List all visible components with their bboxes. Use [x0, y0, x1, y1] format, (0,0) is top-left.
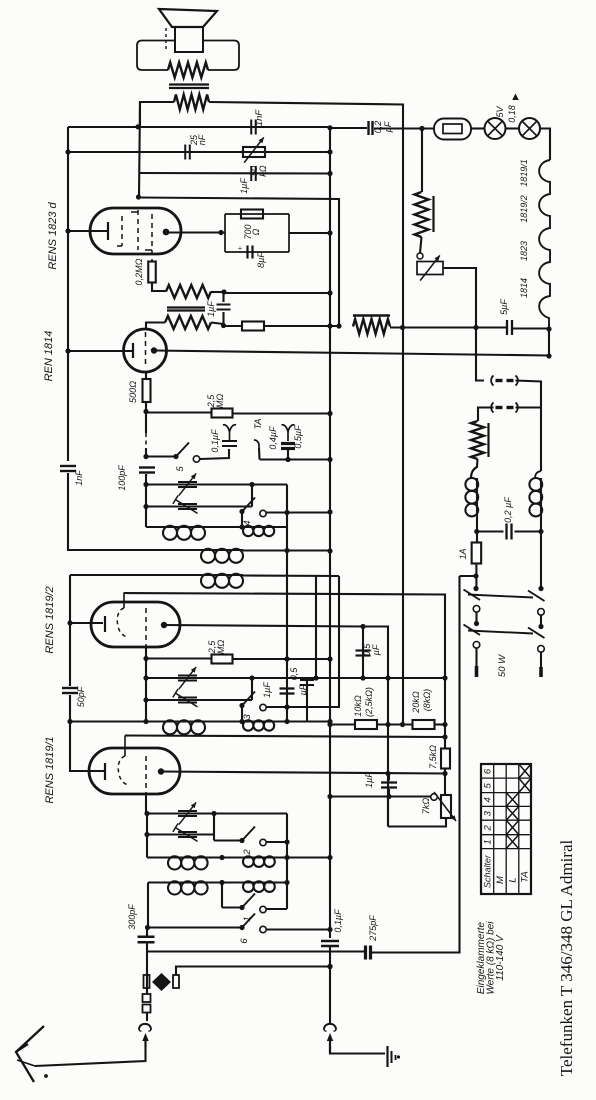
svg-text:275pF: 275pF	[368, 915, 378, 942]
svg-text:µF: µF	[383, 121, 393, 132]
terminal circle	[417, 253, 423, 259]
svg-text:10kΩ: 10kΩ	[353, 695, 363, 717]
interstage secondary winding	[165, 316, 211, 329]
node bus C top	[327, 125, 332, 130]
capacitor 8µF electrolytic	[238, 244, 253, 259]
svg-text:0,1µF: 0,1µF	[333, 909, 343, 933]
transformer core	[169, 85, 209, 89]
node NTC tap	[419, 126, 424, 131]
node	[219, 880, 224, 885]
node	[538, 529, 543, 534]
svg-text:L: L	[508, 877, 519, 882]
wire cathode lead 1819/2	[70, 622, 103, 624]
svg-text:Schalter: Schalter	[483, 854, 493, 888]
wire 2,5M to bus C	[232, 412, 330, 414]
node	[145, 925, 150, 930]
node	[386, 794, 391, 799]
hook plug TA	[254, 440, 259, 448]
svg-text:1nF: 1nF	[74, 470, 84, 486]
wire link P stub	[214, 839, 242, 841]
wire NTC top	[421, 129, 423, 193]
node heater-5uF	[546, 326, 551, 331]
wire link O	[251, 678, 253, 700]
svg-text:MΩ: MΩ	[216, 640, 226, 654]
coil mains left	[465, 478, 478, 491]
node	[327, 171, 332, 176]
wire anode line 1814	[154, 351, 549, 356]
wire link P	[213, 814, 215, 841]
wire rail P	[146, 814, 148, 858]
capacitor 0,4µF	[281, 442, 295, 445]
note eingeklammerte	[476, 921, 506, 995]
svg-text:7,5kΩ: 7,5kΩ	[428, 745, 438, 769]
wire coil right down	[540, 517, 542, 590]
primary winding	[168, 63, 208, 78]
node	[284, 548, 289, 553]
wire lamp to heater chain	[540, 129, 550, 161]
wire to switch 5	[146, 455, 176, 457]
svg-text:nF: nF	[197, 134, 207, 145]
coil P2b	[242, 881, 244, 883]
svg-text:RENS 1819/2: RENS 1819/2	[44, 586, 56, 653]
wire 7,5k down	[444, 769, 446, 796]
svg-text:7kΩ: 7kΩ	[421, 798, 431, 815]
switch 4	[239, 498, 266, 517]
grid 1 dashed	[117, 216, 122, 246]
svg-text:0,1µF: 0,1µF	[210, 429, 220, 453]
wire line y292 to bus C	[224, 292, 330, 294]
wire 0,2M to primary	[152, 283, 166, 291]
capacitor 1µF O	[280, 689, 295, 694]
wire link	[251, 485, 253, 507]
node switch5 tap	[143, 454, 148, 459]
variable capacitor tuning M	[178, 481, 197, 483]
wire cathode feed 1819/2	[69, 575, 71, 623]
node	[385, 722, 390, 727]
node	[327, 290, 332, 295]
svg-text:1814: 1814	[519, 278, 529, 298]
speaker LS	[159, 9, 217, 52]
node	[143, 504, 148, 509]
wire to antenna	[35, 1047, 146, 1066]
node	[143, 656, 148, 661]
node	[284, 839, 289, 844]
wire 500R down	[145, 402, 147, 456]
node	[360, 624, 365, 629]
wire anode drop x388	[387, 627, 389, 827]
anode load block 700Ohm 8uF	[225, 214, 289, 252]
wire antenna vertical	[146, 943, 148, 994]
secondary winding	[174, 95, 209, 110]
anode 1819/2	[161, 622, 167, 628]
wire line y197 to anode bus	[139, 198, 339, 327]
plug arrow antenna	[142, 1033, 148, 1041]
wire line y173	[139, 172, 330, 175]
svg-text:0,18: 0,18	[507, 105, 517, 123]
plug arrow earth	[327, 1033, 333, 1041]
svg-text:µF: µF	[298, 684, 308, 695]
wire to fuse	[374, 127, 434, 129]
coil mains right	[529, 471, 542, 516]
fuse 1A	[472, 543, 482, 564]
wire T to 275pF line	[147, 950, 365, 952]
wire jack2 left	[478, 408, 494, 422]
wire line y724	[330, 723, 355, 725]
node	[67, 719, 72, 724]
node	[327, 719, 332, 724]
coil M1	[162, 526, 164, 528]
svg-text:4: 4	[483, 797, 494, 802]
svg-text:1µF: 1µF	[364, 772, 374, 788]
svg-text:50 W: 50 W	[497, 654, 508, 677]
wire coupling line 2	[70, 574, 201, 576]
wire right plug to line2	[176, 967, 330, 976]
svg-text:1nF: 1nF	[254, 109, 265, 127]
svg-text:Telefunken T 346/348 GL Admira: Telefunken T 346/348 GL Admiral	[557, 840, 576, 1077]
svg-text:1823: 1823	[519, 241, 529, 261]
node bus C TA	[327, 457, 332, 462]
variable capacitor tuning P	[178, 810, 197, 812]
node	[284, 704, 289, 709]
node	[144, 832, 149, 837]
switch 5	[173, 454, 178, 459]
lamp La2	[519, 118, 540, 139]
node	[327, 323, 332, 328]
svg-text:0,2 µF: 0,2 µF	[503, 497, 513, 523]
node	[327, 656, 332, 661]
svg-text:MΩ: MΩ	[215, 394, 225, 408]
node	[249, 482, 254, 487]
cathode 1819/1	[104, 763, 106, 780]
svg-text:2: 2	[242, 849, 253, 856]
terminal circle pot	[431, 794, 438, 801]
trimmer capacitor O	[178, 697, 197, 699]
wire to ground	[330, 1046, 385, 1054]
resistor 20kOhm	[413, 720, 435, 729]
wire grid2 down	[145, 647, 147, 659]
switch 2	[239, 838, 244, 843]
node junction	[135, 124, 140, 129]
svg-text:3: 3	[483, 810, 494, 816]
coil P2a	[167, 881, 169, 883]
wire RC to bus C	[289, 232, 330, 234]
switch mains TR	[528, 591, 545, 616]
wire heater bottom	[548, 329, 550, 356]
plug pair bottom	[143, 994, 151, 1021]
wire between lamps	[506, 127, 520, 129]
wire coil line O	[70, 720, 330, 722]
wire TL circle down	[475, 612, 477, 624]
node	[474, 529, 479, 534]
wire coil left down	[476, 517, 478, 544]
wire TA hook down	[258, 448, 261, 460]
svg-text:5: 5	[483, 782, 494, 788]
link bar row1	[468, 595, 533, 598]
anode 1814	[151, 347, 157, 353]
coil M2	[242, 526, 244, 528]
wire row B P	[147, 833, 214, 835]
svg-text:RENS 1823 d: RENS 1823 d	[47, 201, 59, 269]
wire cathode chain down 2	[69, 695, 71, 722]
wire bus A	[67, 127, 69, 461]
wire coil line P1	[147, 856, 330, 858]
node	[327, 722, 332, 727]
wire AVC line left	[224, 325, 243, 327]
capacitor 1µF AVC	[217, 292, 231, 325]
wire BL to terminal	[475, 648, 477, 666]
svg-text:2: 2	[483, 825, 494, 832]
capacitor 25nF	[184, 145, 186, 160]
resistor 50kOhm variable	[243, 137, 265, 162]
node	[143, 409, 148, 414]
node	[538, 624, 543, 629]
capacitor 0,5µF bus D	[356, 649, 371, 651]
node	[284, 719, 289, 724]
resistor 500 Ohm	[143, 379, 151, 402]
wire cathode chain down	[69, 623, 71, 686]
table digits	[483, 768, 531, 888]
wire cathode lead 1819/1	[70, 722, 104, 772]
anode 1823d	[163, 229, 170, 236]
svg-text:(2,5kΩ): (2,5kΩ)	[364, 687, 374, 717]
node	[327, 964, 332, 969]
capacitor 275pF	[364, 946, 367, 960]
node	[327, 230, 332, 235]
wire line y152	[68, 151, 330, 153]
wire to coil left	[471, 459, 478, 478]
coil O1	[162, 720, 164, 722]
wire cathode lead	[68, 230, 108, 232]
heater chain humps	[539, 160, 550, 329]
node	[385, 771, 390, 776]
wire jack drop right	[540, 408, 542, 472]
wire jack1 right	[516, 381, 542, 408]
svg-text:0,4µF: 0,4µF	[268, 426, 278, 450]
wire row2 left drop	[147, 883, 149, 928]
node	[284, 855, 289, 860]
node	[327, 149, 332, 154]
wire 0,4uF down	[287, 449, 289, 460]
wire regulator to 5uF line	[443, 268, 476, 328]
wire row A P	[147, 812, 287, 814]
wire 5uF to heater	[513, 327, 549, 329]
coupling coil 1	[200, 549, 202, 551]
resistor NTC (regulating)	[415, 192, 434, 237]
capacitor 0,2µF	[367, 121, 369, 135]
resistor 50kOhm AVC	[242, 322, 264, 331]
wire x339 osc feed	[339, 576, 340, 706]
wire anode line 1819/1	[161, 772, 445, 774]
svg-text:RENS 1819/1: RENS 1819/1	[44, 736, 56, 803]
wire coil line M	[146, 526, 287, 528]
wire secondary left lead	[140, 102, 174, 127]
node	[473, 586, 478, 591]
node	[327, 964, 332, 969]
wire coupling1 right	[243, 549, 330, 551]
terminal stub left	[475, 666, 479, 677]
coil P1a	[167, 856, 169, 858]
switch 1	[239, 905, 244, 910]
node	[143, 482, 148, 487]
coupling coil 2	[200, 574, 202, 576]
node	[249, 675, 254, 680]
grid2 dashed 1819/1	[145, 756, 147, 794]
grid hook 1819/1	[118, 736, 128, 786]
capacitor 300pF	[138, 928, 155, 943]
node	[442, 722, 447, 727]
switch mains BR	[528, 628, 545, 653]
node	[285, 457, 290, 462]
svg-text:1µF: 1µF	[206, 301, 216, 317]
svg-text:3: 3	[242, 714, 253, 720]
wire grid2 down to rail	[145, 794, 147, 814]
node heater-anode line	[546, 353, 551, 358]
wire 0,2uF line	[477, 530, 541, 532]
wire row A	[146, 483, 287, 485]
capacitor 1µF coupling	[250, 166, 252, 181]
wire pot loop	[388, 818, 446, 827]
wire coil line P2	[148, 881, 287, 883]
node	[442, 771, 447, 776]
node	[336, 323, 341, 328]
wire secondary to grid 1814	[146, 323, 165, 331]
output transformer primary loop	[137, 41, 239, 71]
svg-text:5V: 5V	[495, 106, 505, 118]
switch 6	[239, 925, 244, 930]
wire 2,5M line O	[146, 657, 212, 659]
wire rail O	[145, 659, 147, 722]
table Schalter	[481, 764, 531, 894]
resistor 2,5MOhm O	[212, 655, 233, 664]
interstage primary winding	[166, 285, 211, 298]
cathode 1814	[132, 343, 134, 358]
wire line y796	[330, 795, 431, 797]
wire to 2,5M	[146, 411, 212, 413]
resistor 2,5MOhm	[212, 409, 233, 418]
coil P1b	[242, 856, 244, 858]
wire anode line 1819/2	[164, 625, 388, 627]
coil O2	[242, 720, 244, 722]
cathode 1823d	[107, 222, 109, 240]
node bus E end	[400, 722, 405, 727]
wire row B	[146, 505, 252, 507]
switch mains TL	[464, 590, 481, 613]
anode 1819/1	[158, 768, 164, 774]
svg-text:100pF: 100pF	[117, 465, 127, 491]
resistor field coil with core bar	[353, 316, 390, 335]
wire row2 mid drop	[221, 883, 223, 908]
wire switch1 left	[222, 906, 242, 908]
node	[327, 509, 332, 514]
node	[385, 675, 390, 680]
capacitor 0,2µF mains	[505, 524, 507, 540]
wire 5uF line	[390, 326, 506, 328]
svg-text:TA: TA	[520, 871, 531, 882]
wire TR circle down	[540, 615, 542, 627]
node	[211, 811, 216, 816]
wire regulator drop to jack	[476, 328, 484, 381]
wire jack2 right	[516, 406, 542, 408]
wire BR to terminal	[540, 652, 542, 667]
grid2 dashed 1819/2	[145, 608, 147, 647]
svg-text:50pF: 50pF	[76, 686, 86, 707]
hook connector antenna	[139, 1024, 151, 1030]
tube REN 1814 envelope	[124, 329, 167, 372]
ground symbol	[388, 1046, 396, 1067]
hook connector earth	[324, 1024, 336, 1030]
svg-text:500Ω: 500Ω	[128, 381, 138, 403]
wire switch3 right	[266, 706, 340, 708]
svg-text:6: 6	[483, 768, 494, 774]
node	[239, 524, 244, 529]
tube RENS 1819/2 envelope	[91, 602, 180, 647]
wire 2,5M O right	[232, 658, 330, 660]
wire fuse to lamp	[471, 127, 485, 129]
svg-text:110-140 V: 110-140 V	[495, 934, 506, 981]
wire antenna line y927	[148, 926, 242, 928]
wire pot loop up	[387, 797, 389, 827]
wire grid line 1823d	[139, 102, 140, 198]
tube RENS 1823d envelope	[90, 208, 181, 254]
link bar row2	[468, 631, 533, 634]
wire fuse down	[475, 564, 477, 589]
wire rail	[145, 474, 147, 527]
wire 275pF right	[371, 576, 460, 953]
node	[284, 880, 289, 885]
svg-text:1819/2: 1819/2	[519, 195, 529, 223]
wire TA line	[260, 458, 331, 460]
wire x287 P segment	[286, 814, 288, 910]
svg-text:Ω: Ω	[251, 228, 261, 235]
grid 1814 dashed	[145, 332, 147, 368]
svg-text:+: +	[238, 244, 243, 253]
node	[327, 927, 332, 932]
wire cathode lead to bus A	[68, 350, 133, 352]
resistor with core bar right	[471, 421, 489, 459]
wire NTC to regulator	[420, 237, 422, 253]
variable resistor (regulator)	[417, 255, 443, 280]
resistor 0,2MOhm grid leak	[148, 262, 156, 283]
svg-text:20kΩ: 20kΩ	[411, 691, 421, 714]
node	[538, 586, 543, 591]
wire 10k-20k	[377, 723, 413, 725]
resistor 7,5kOhm	[441, 749, 450, 769]
capacitor 5µF	[506, 320, 508, 335]
wire switch1 right	[266, 908, 287, 910]
grid hook 1819/2	[117, 593, 127, 637]
wire AVC to bus C	[264, 325, 339, 327]
wire row B O	[146, 699, 252, 701]
node	[327, 411, 332, 416]
wire switch6 to bus C	[266, 928, 330, 930]
wire bus C below cap	[329, 946, 331, 1023]
wire 20k right	[435, 723, 446, 725]
wire anode lead	[169, 231, 225, 233]
node	[442, 675, 447, 680]
wire grid line 1819/2	[124, 593, 446, 680]
node regulator tap	[473, 325, 478, 330]
jack TA 1	[223, 425, 236, 441]
wire line y127 right	[330, 127, 367, 129]
svg-text:kΩ: kΩ	[258, 165, 268, 177]
node	[442, 734, 447, 739]
capacitor 1nF bus A	[60, 465, 76, 467]
node	[239, 719, 244, 724]
wire primary to node	[211, 291, 224, 293]
svg-text:5: 5	[175, 466, 186, 472]
pin jack link 1	[491, 376, 493, 386]
wire secondary right lead to bus E	[209, 102, 403, 724]
